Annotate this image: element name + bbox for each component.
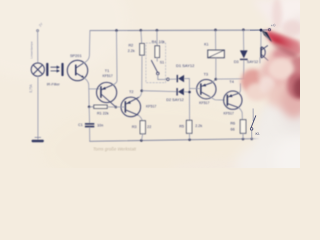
label R4 10k xyxy=(152,40,165,44)
svg-text:T3: T3 xyxy=(204,72,208,76)
wire: T4 emitter to R6 xyxy=(239,108,243,120)
label C1 xyxy=(78,123,83,127)
diode D3 xyxy=(240,30,248,79)
battery plate thin xyxy=(35,136,41,138)
node R2/T2/D2 xyxy=(140,89,143,92)
wire: ground bottom bus xyxy=(90,139,259,142)
label R5 2.2k xyxy=(179,124,202,128)
svg-text:S1: S1 xyxy=(160,61,164,65)
hand: top-right out of focus finger xyxy=(252,0,314,40)
svg-text:T2: T2 xyxy=(129,90,133,94)
diode D1 xyxy=(177,75,190,82)
terminal +U xyxy=(262,23,276,31)
wire: T3 collector to T4 base xyxy=(210,97,225,100)
wire: T1 emitter to bus xyxy=(113,30,117,84)
battery plate thick xyxy=(32,140,44,143)
svg-text:SP201: SP201 xyxy=(70,53,82,58)
label 10n xyxy=(97,123,103,127)
wire: lamp bottom lead xyxy=(37,76,39,139)
label SAY12 (D3) xyxy=(247,60,258,64)
svg-text:T4: T4 xyxy=(229,80,233,84)
svg-text:Toms große Werkstatt: Toms große Werkstatt xyxy=(93,147,137,152)
label T1 xyxy=(102,69,112,78)
label T3 xyxy=(204,72,208,76)
label R6 66 xyxy=(230,122,235,132)
wire: lamp top lead xyxy=(37,32,39,63)
wire: SP201 collector to bus xyxy=(84,31,90,63)
label R1 22k xyxy=(97,112,109,116)
resistor R1 xyxy=(90,105,116,108)
label Linsenlampe xyxy=(30,41,34,58)
transistor T5 partial xyxy=(260,30,268,63)
label R2 xyxy=(128,43,135,52)
lamp xyxy=(31,63,44,76)
svg-text:T1: T1 xyxy=(105,69,109,73)
label S1 xyxy=(160,61,164,65)
pen red barrel xyxy=(266,31,300,59)
hand: fingertip blob left xyxy=(241,66,276,101)
label K1 xyxy=(204,43,208,47)
svg-text:Kl.: Kl. xyxy=(255,132,259,136)
svg-text:Linsenlampe: Linsenlampe xyxy=(30,41,34,58)
label T4 xyxy=(229,80,233,84)
label KF517 (T4) xyxy=(224,112,234,116)
switch S1 xyxy=(151,60,176,80)
node: bottom bus dots xyxy=(140,138,253,142)
svg-text:D2 SAY12: D2 SAY12 xyxy=(166,98,183,102)
label Kl. xyxy=(255,132,259,136)
wire: node down to R1/C1 xyxy=(88,89,90,107)
wire: T2 emitter to R3 xyxy=(138,115,142,120)
phototransistor SP201 xyxy=(67,60,87,80)
resistor R5 xyxy=(186,120,192,139)
node T1 collector / T2 base xyxy=(115,106,118,109)
svg-text:R1 22k: R1 22k xyxy=(97,112,109,116)
wire: SP201 emitter to T1 base node xyxy=(84,78,99,89)
svg-text:KF517: KF517 xyxy=(224,112,234,116)
svg-text:0,75A: 0,75A xyxy=(29,83,33,92)
hand: big pink finger xyxy=(259,43,310,118)
relay K1 coil xyxy=(208,30,225,79)
label T2 xyxy=(129,90,133,94)
wire: T3 emitter to relay node xyxy=(212,79,215,82)
svg-text:KF517: KF517 xyxy=(102,74,112,78)
pen tip cone xyxy=(262,30,272,42)
label D2 SAY12 xyxy=(166,98,183,102)
svg-text:KF517: KF517 xyxy=(199,101,209,105)
node: bus junction dots xyxy=(115,28,262,31)
svg-text:R6: R6 xyxy=(230,122,235,126)
label R3 22 xyxy=(132,125,151,129)
svg-text:R5: R5 xyxy=(179,124,184,128)
label KF517 (T2) xyxy=(146,104,156,108)
watermark Toms grosse Werkstatt xyxy=(93,147,137,152)
svg-text:2.2k: 2.2k xyxy=(195,124,202,128)
capacitor C1 xyxy=(85,107,94,141)
label D1 SAY12 xyxy=(176,63,195,68)
svg-text:R4: R4 xyxy=(152,40,157,44)
transistor T1 xyxy=(97,82,117,106)
wire: D1 node down through D2 node to R5 xyxy=(188,79,190,121)
wire: T2 collector to R2 node xyxy=(139,91,142,98)
wire: T4 collector up xyxy=(239,84,241,94)
svg-text:C1: C1 xyxy=(78,123,83,127)
resistor R3 xyxy=(140,121,145,141)
node relay/T3/wire xyxy=(215,78,218,81)
svg-text:D3: D3 xyxy=(234,60,239,64)
resistor R4 xyxy=(155,30,160,61)
svg-text:K1: K1 xyxy=(204,43,208,47)
label KF517 (T3) xyxy=(199,101,209,105)
svg-text:22: 22 xyxy=(147,125,151,129)
svg-text:D1 SAY12: D1 SAY12 xyxy=(176,63,195,68)
svg-text:10n: 10n xyxy=(97,123,103,127)
transistor T2 xyxy=(121,97,141,117)
wire: bus right end redraw xyxy=(250,23,276,31)
svg-text:10k: 10k xyxy=(159,40,165,44)
schematic ink xyxy=(29,21,276,151)
hand: bottom-right white blur xyxy=(170,80,320,188)
wire: node to D2 xyxy=(142,90,177,93)
label 0,75A xyxy=(29,83,33,92)
terminal 2V lamp supply xyxy=(37,21,44,31)
svg-text:IR-Filter: IR-Filter xyxy=(47,82,61,86)
relay contact output xyxy=(250,109,256,139)
label SP201 xyxy=(70,53,82,58)
svg-text:SAY12: SAY12 xyxy=(247,60,258,64)
wire: +U top bus xyxy=(90,29,261,32)
wire: node to T4/T5 area xyxy=(216,78,252,81)
transistor T4 xyxy=(224,91,242,109)
wire: T2 base xyxy=(116,106,125,108)
svg-text:66: 66 xyxy=(231,128,235,132)
label D3 xyxy=(234,60,239,64)
svg-text:2.2k: 2.2k xyxy=(128,49,135,53)
diode D2 xyxy=(176,88,189,95)
node R1 left xyxy=(88,106,91,109)
paper background xyxy=(0,0,300,168)
svg-text:R2: R2 xyxy=(128,43,133,47)
wire: T3 base xyxy=(190,88,201,90)
IR filter plates xyxy=(46,63,63,76)
resistor R6 xyxy=(240,120,246,139)
svg-text:R3: R3 xyxy=(132,125,137,129)
transistor T3 xyxy=(197,80,216,99)
node D2/R5/T3 xyxy=(188,91,191,94)
IR light arrows xyxy=(51,66,59,72)
svg-text:KF517: KF517 xyxy=(146,104,156,108)
label IR-Filter xyxy=(47,82,61,86)
dashed box S1/R4 xyxy=(146,43,166,83)
resistor R2 xyxy=(140,30,145,90)
